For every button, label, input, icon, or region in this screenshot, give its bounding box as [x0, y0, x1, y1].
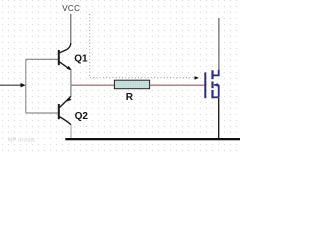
svg-text:R: R	[126, 92, 134, 103]
wire Q2 base	[26, 112, 58, 114]
wire Q2 emitter to node	[70, 85, 72, 96]
body-source vertical	[218, 85, 220, 97]
label R	[126, 92, 134, 103]
body arrow lead	[214, 84, 219, 86]
wire base rail vertical	[25, 59, 27, 113]
source lead	[213, 96, 219, 98]
wire source down	[218, 98, 220, 138]
wire Q2 collector to ground	[70, 125, 72, 138]
MOSFET U1 (N-channel power)	[205, 70, 218, 99]
input wire	[0, 84, 21, 86]
wire node to resistor (red)	[71, 84, 115, 86]
label Q2	[75, 111, 89, 122]
transistor Q1 (NPN)	[59, 43, 72, 70]
input arrowhead	[21, 83, 26, 87]
transistor Q2 (PNP)	[59, 96, 72, 124]
wire resistor to gate (red)	[150, 84, 205, 86]
svg-text:MP circuits: MP circuits	[8, 138, 35, 144]
watermark	[8, 138, 35, 144]
gate bar	[204, 72, 206, 98]
resistor R	[114, 80, 149, 89]
wire Q1 base	[26, 58, 58, 60]
ground bus bar	[65, 138, 240, 140]
channel segments	[211, 70, 213, 79]
drain lead	[213, 70, 219, 76]
svg-text:Q2: Q2	[75, 111, 89, 122]
net highlight dotted line to gate	[90, 14, 199, 80]
label Q1	[74, 54, 88, 65]
power VCC label	[62, 4, 80, 13]
svg-text:Q1: Q1	[74, 54, 88, 65]
wire drain up	[218, 18, 220, 70]
svg-text:VCC: VCC	[62, 4, 80, 13]
wire VCC vertical	[70, 14, 72, 43]
wire Q1 emitter to node	[70, 70, 72, 85]
